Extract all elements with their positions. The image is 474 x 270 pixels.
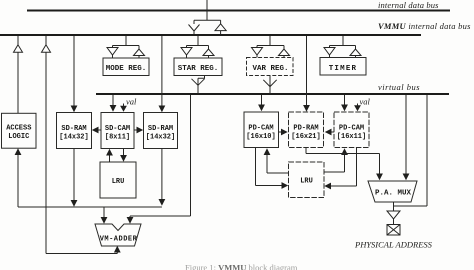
- svg-text:SD-RAM: SD-RAM: [148, 125, 173, 133]
- svg-text:VM-ADDER: VM-ADDER: [100, 236, 138, 244]
- svg-text:PD-CAM: PD-CAM: [339, 125, 364, 133]
- svg-text:P.A. MUX: P.A. MUX: [375, 190, 412, 198]
- svg-text:val: val: [360, 97, 371, 107]
- svg-text:TIMER: TIMER: [329, 65, 358, 73]
- svg-text:val: val: [126, 97, 137, 107]
- svg-text:[8x11]: [8x11]: [105, 134, 130, 142]
- svg-text:VMMU internal data bus: VMMU internal data bus: [378, 21, 471, 31]
- svg-text:MODE REG.: MODE REG.: [106, 65, 147, 73]
- svg-text:[16x10]: [16x10]: [246, 133, 275, 141]
- svg-text:Figure 1: VMMU block diagram: Figure 1: VMMU block diagram: [185, 263, 298, 270]
- svg-text:PD-RAM: PD-RAM: [293, 125, 318, 133]
- svg-text:VAR REG.: VAR REG.: [252, 65, 288, 73]
- svg-text:STAR REG.: STAR REG.: [178, 65, 219, 73]
- svg-text:SD-RAM: SD-RAM: [61, 125, 86, 133]
- svg-text:[14x32]: [14x32]: [146, 134, 175, 142]
- svg-text:ACCESS: ACCESS: [6, 125, 31, 133]
- svg-text:virtual bus: virtual bus: [378, 82, 420, 92]
- svg-text:LRU: LRU: [300, 178, 313, 186]
- svg-text:LOGIC: LOGIC: [8, 133, 29, 141]
- svg-text:[16x21]: [16x21]: [291, 133, 320, 141]
- svg-text:SD-CAM: SD-CAM: [105, 125, 130, 133]
- svg-text:PHYSICAL ADDRESS: PHYSICAL ADDRESS: [354, 240, 433, 250]
- svg-text:PD-CAM: PD-CAM: [248, 125, 273, 133]
- svg-text:[14x32]: [14x32]: [59, 134, 88, 142]
- svg-text:[16x11]: [16x11]: [337, 133, 366, 141]
- svg-text:LRU: LRU: [112, 178, 125, 186]
- svg-text:internal data bus: internal data bus: [378, 0, 439, 10]
